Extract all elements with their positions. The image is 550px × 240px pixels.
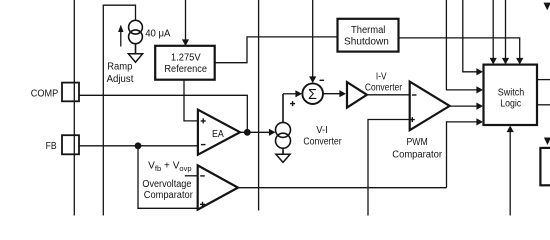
block: 1.275V Reference [155,46,215,80]
wire: arrow into 1.275V reference top [182,0,189,46]
wire: PWM output arrow into switch logic left input 3 [450,103,483,110]
buffer U3 I-V converter [347,82,367,108]
svg-text:Vfb + Vovp: Vfb + Vovp [148,161,191,174]
wire: rail into switch logic left input 1 [463,0,483,75]
wire: reference output up to thermal-shutdown row [215,37,338,63]
arrow: top-right partial arrowhead [544,3,550,11]
svg-text:Ramp: Ramp [107,62,133,73]
node: EA output junction dot [244,129,251,136]
current source G1 V-I converter [276,94,291,154]
wire: arrow up into switch logic bottom [507,126,514,216]
current source I1 40uA [129,20,143,54]
comparator U2 overvoltage [198,165,238,209]
svg-text:Logic: Logic [500,98,521,109]
wire: I-V buffer output to PWM comparator - input [367,94,410,96]
wire: ramp-adjust vertical rail [103,5,135,215]
wire: thermal shutdown output to switch logic top arrow 3 [399,38,524,65]
wire: feed into PWM comparator + input [368,120,410,216]
svg-text:COMP: COMP [31,88,59,99]
wire: rail arrow into switch logic top 1 [490,0,497,65]
arrow: up arrow beside current source [118,25,123,47]
wire: stub into overvoltage comparator - input [185,175,198,177]
wire: ramp feed arrow into summer top [309,0,316,83]
wire: EA output arrow into V-I converter [240,129,276,136]
svg-text:Comparator: Comparator [392,150,442,161]
svg-text:40 μA: 40 μA [145,29,171,40]
op-amp EA error amplifier [198,110,240,155]
svg-text:Overvoltage: Overvoltage [142,179,191,190]
svg-text:Adjust: Adjust [107,74,134,85]
wire: overvoltage output up into switch logic left input 4 [447,118,484,187]
comparator U4 PWM [410,82,450,131]
arrow: ramp open arrowhead below current source [128,54,142,62]
wire: reference to EA non-inverting input [184,80,198,121]
node: FB junction dot [135,142,142,149]
pin FB [46,135,79,154]
block: Thermal Shutdown [338,19,399,52]
wire: FB to EA inverting input [79,145,198,147]
svg-text:FB: FB [46,141,57,152]
label: plus at summer left input [290,101,295,106]
svg-text:Shutdown: Shutdown [344,36,389,47]
svg-text:Converter: Converter [365,83,403,94]
wire: COMP to EA output node [79,95,247,132]
wire: overvoltage comparator output [238,187,447,189]
wire: rail arrow into switch logic top 2 [502,0,509,65]
wire: left vertical rail through COMP/FB pins [73,0,75,216]
svg-text:EA: EA [212,129,224,140]
arrow: open arrowhead below V-I current source [276,154,290,162]
svg-text:Comparator: Comparator [144,190,194,201]
block: right edge partial box [540,148,550,185]
label: minus at summer top input [320,79,325,81]
summer S1 [302,83,323,104]
wire: summer output arrow into I-V buffer [323,90,346,97]
arrow: arrowhead into right partial box [544,138,550,146]
svg-text:Thermal: Thermal [351,25,385,36]
svg-text:I-V: I-V [376,72,387,83]
svg-text:PWM: PWM [407,137,428,148]
svg-text:Reference: Reference [164,64,207,75]
wire: switch logic right stub 2 [537,104,550,106]
svg-text:1.275V: 1.275V [171,52,201,63]
svg-text:Converter: Converter [303,136,342,147]
wire: switch logic right stub 1 [537,79,550,81]
wire: V-I output arrow into summer [283,90,302,97]
svg-text:Σ: Σ [308,87,317,103]
wire: FB branch to overvoltage comparator + input [138,146,198,209]
wire: rail into switch logic left input 2 [446,0,483,94]
pin COMP [31,83,79,102]
svg-text:V-I: V-I [316,125,328,136]
block: Switch Logic [484,65,538,125]
svg-text:Switch: Switch [498,87,524,98]
wire: long mid vertical rail [258,0,260,211]
